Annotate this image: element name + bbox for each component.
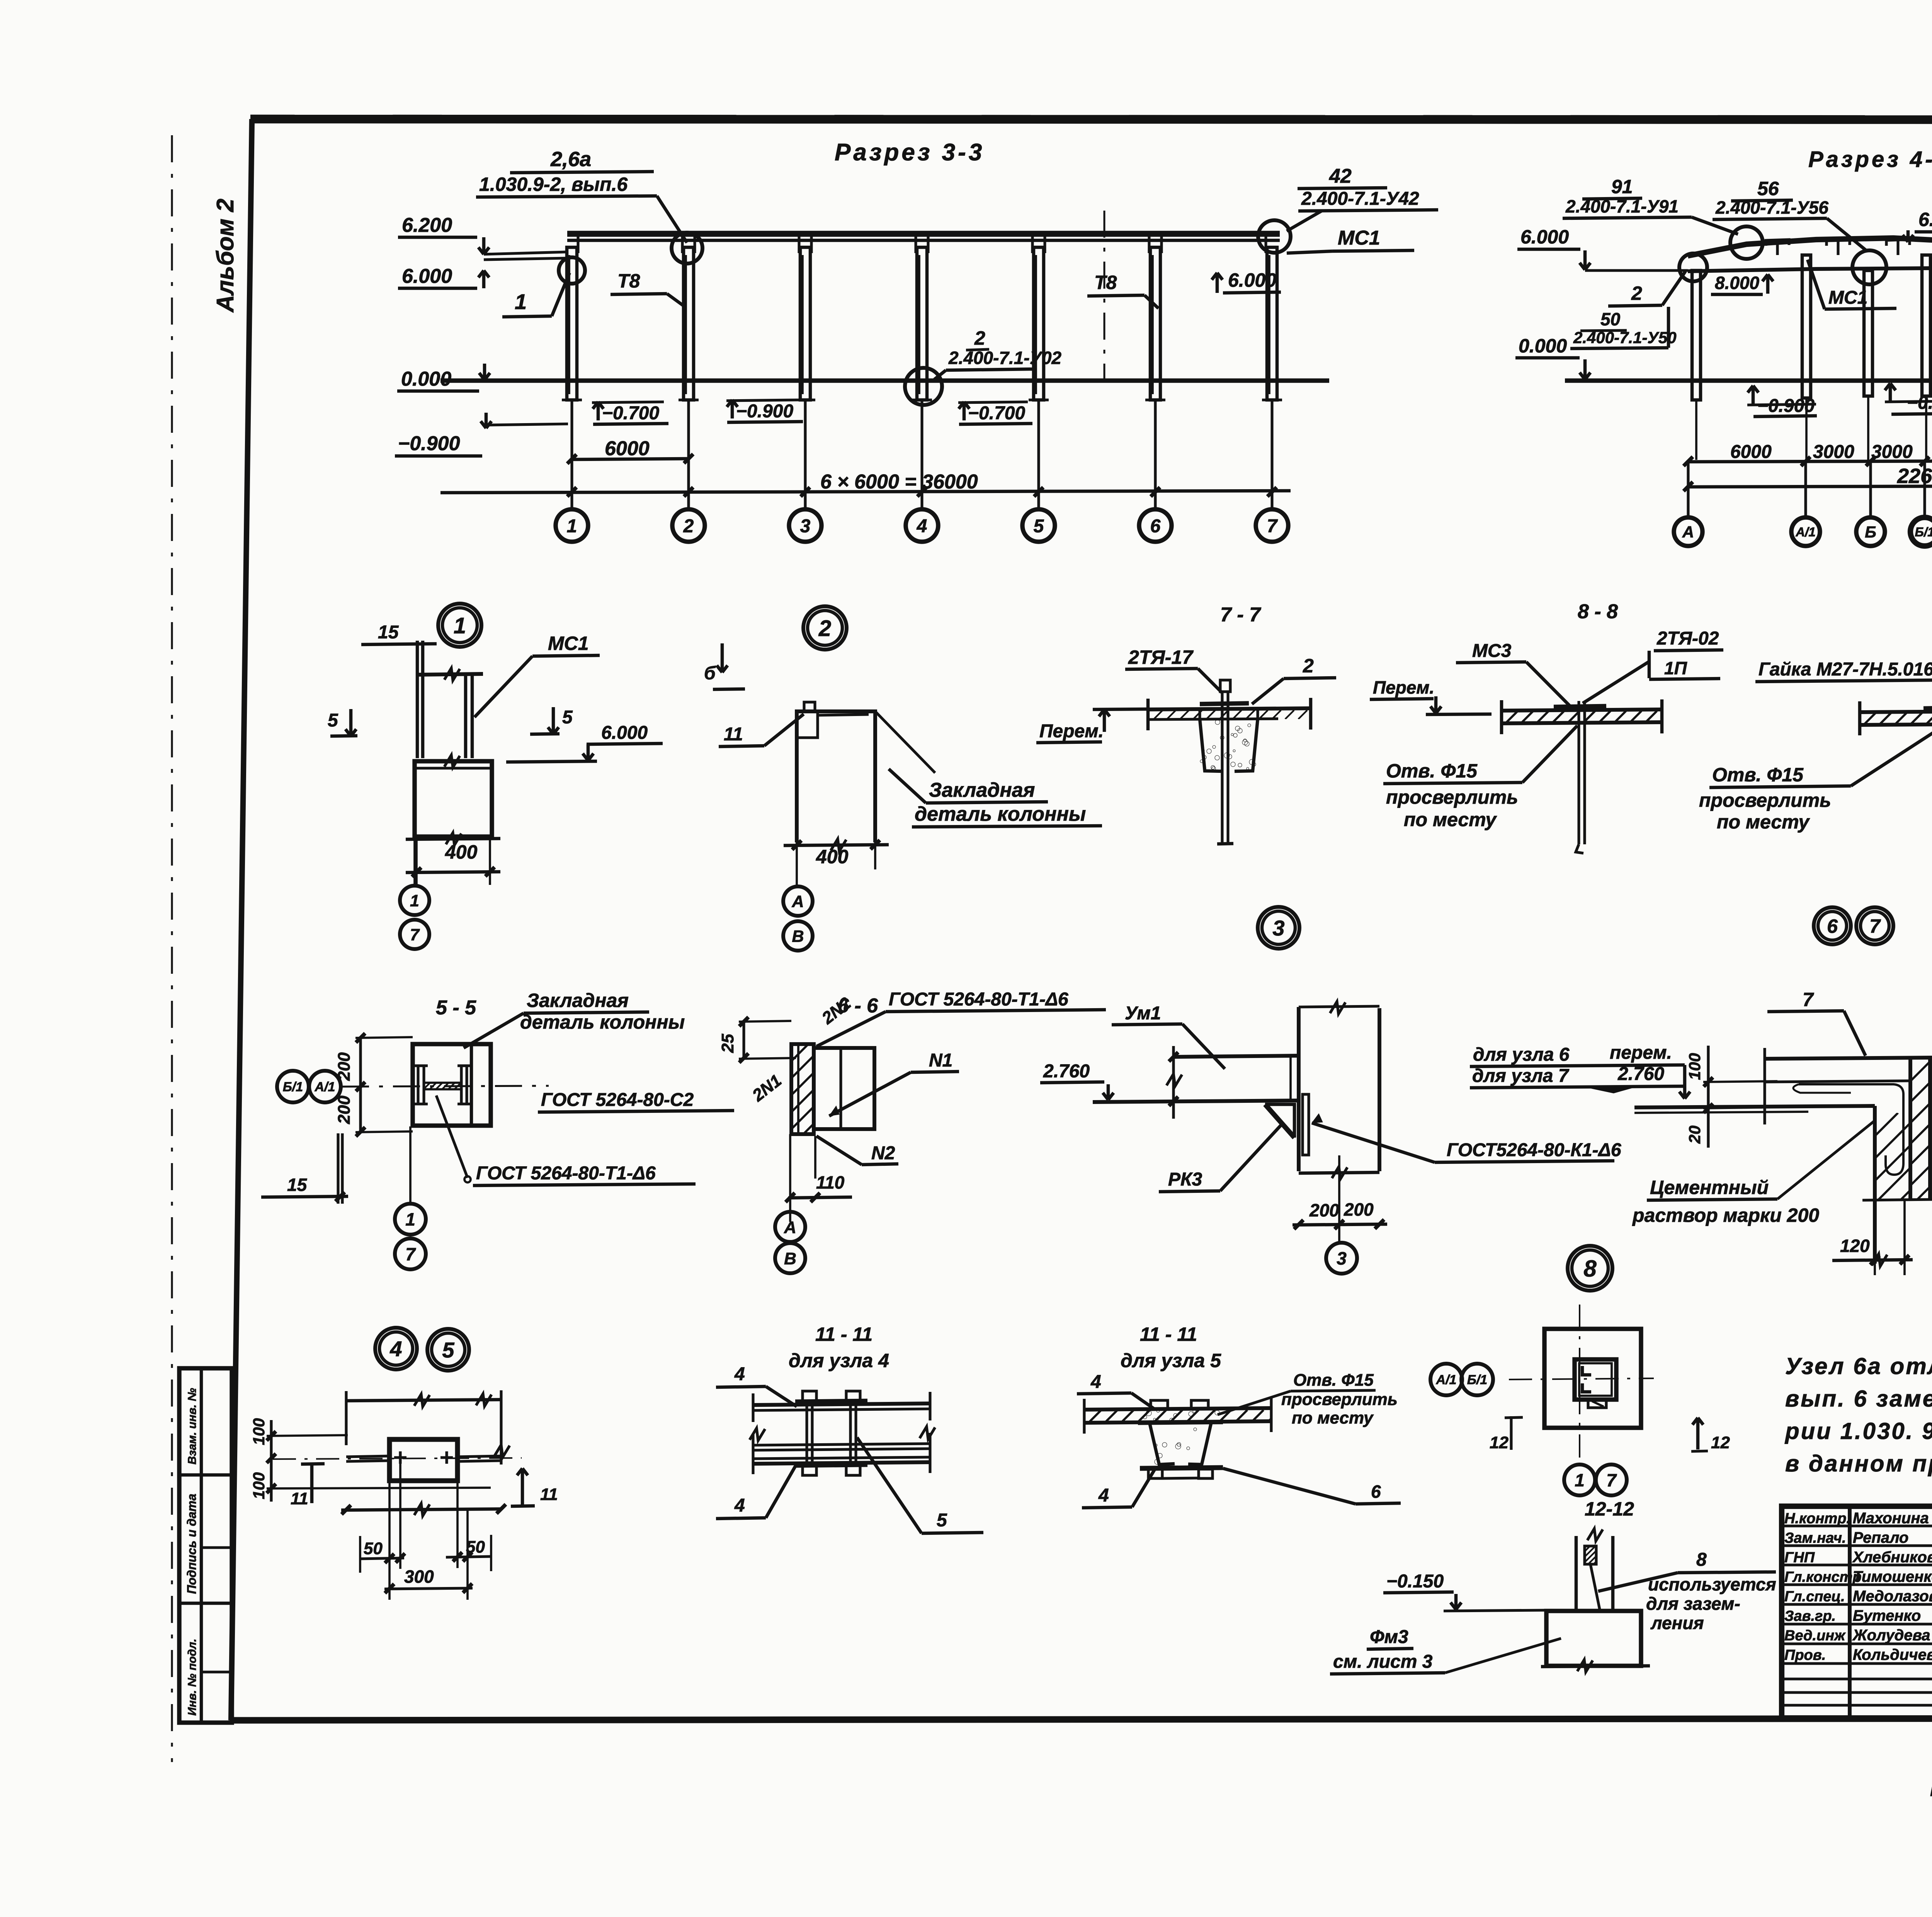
svg-text:МС3: МС3 <box>1472 641 1512 661</box>
detail node 2 marker circle <box>803 606 847 650</box>
svg-text:ГНП: ГНП <box>1784 1550 1815 1566</box>
roof beam section 3-3 <box>567 231 1280 237</box>
svg-text:0.000: 0.000 <box>401 368 451 390</box>
column on grid 7 (section 3-3) <box>1267 247 1277 400</box>
detail node 3 marker circle <box>1258 907 1299 949</box>
svg-text:6.000: 6.000 <box>1520 226 1569 248</box>
svg-text:1: 1 <box>1575 1470 1585 1490</box>
svg-text:22650: 22650 <box>1897 464 1932 488</box>
svg-text:Б/1: Б/1 <box>1915 525 1932 539</box>
grid marker circles А..Д (section 4-4) <box>1674 517 1702 546</box>
svg-text:1П: 1П <box>1664 658 1687 678</box>
node 6-7: slab with anchor loop <box>1765 1058 1932 1059</box>
svg-text:Вед.инж: Вед.инж <box>1784 1628 1846 1644</box>
svg-text:МС1: МС1 <box>548 633 589 654</box>
svg-text:6.000: 6.000 <box>601 723 648 743</box>
svg-text:6: 6 <box>1150 516 1161 536</box>
dimension row 6000/3000/3000/6000/4000 (section 4-4) <box>1688 461 1932 462</box>
svg-text:4: 4 <box>389 1337 402 1361</box>
svg-text:200: 200 <box>1309 1200 1339 1220</box>
node 4-5: top dimension line with breaks <box>346 1400 501 1401</box>
node 1: steel post МС1 elevation <box>416 641 419 758</box>
svg-text:7: 7 <box>1869 915 1881 937</box>
svg-text:2: 2 <box>818 616 831 641</box>
node 2: grid circles А and В <box>783 886 813 916</box>
svg-text:0.000: 0.000 <box>1519 335 1567 357</box>
svg-text:3000: 3000 <box>1813 442 1854 462</box>
title block table <box>1782 1506 1932 1718</box>
7-7: ribbed panel section with anchor bolt <box>1148 708 1311 709</box>
svg-text:Кольдичева: Кольдичева <box>1853 1647 1932 1664</box>
svg-text:5: 5 <box>328 710 338 731</box>
6-6: end plate with hatch <box>791 1044 814 1134</box>
svg-text:8 - 8: 8 - 8 <box>1578 600 1618 623</box>
node 8: centerlines <box>1579 1305 1580 1458</box>
column on grid 5 (section 3-3) <box>1034 247 1044 400</box>
column on grid Б1 (section 4-4) <box>1922 255 1930 396</box>
svg-text:Взам. инв. №: Взам. инв. № <box>186 1388 199 1465</box>
svg-text:2.400-7.1-У56: 2.400-7.1-У56 <box>1715 197 1828 218</box>
svg-text:11: 11 <box>724 724 743 745</box>
9-9: slab section <box>1860 711 1932 712</box>
svg-text:Б/1: Б/1 <box>283 1080 303 1094</box>
svg-text:200: 200 <box>1344 1199 1374 1220</box>
ground line 0.000 (section 4-4) <box>1565 378 1932 383</box>
svg-text:7: 7 <box>1267 516 1278 536</box>
svg-text:Тимошенко: Тимошенко <box>1853 1568 1932 1585</box>
svg-text:Махонина: Махонина <box>1853 1510 1929 1527</box>
svg-text:5: 5 <box>937 1510 947 1531</box>
column on grid 6 (section 3-3) <box>1150 247 1160 400</box>
8-8: slab section <box>1502 709 1662 711</box>
svg-text:50: 50 <box>1600 309 1621 329</box>
svg-text:ГОСТ5264-80-К1-Δ6: ГОСТ5264-80-К1-Δ6 <box>1447 1140 1621 1160</box>
node 3: column with closure plate <box>1297 1007 1301 1171</box>
svg-text:Гл.спец.: Гл.спец. <box>1784 1589 1845 1605</box>
svg-text:3: 3 <box>1337 1249 1347 1269</box>
svg-text:по месту: по месту <box>1717 811 1810 833</box>
svg-text:Хлебников: Хлебников <box>1852 1549 1932 1566</box>
svg-text:Гайка М27-7Н.5.016: Гайка М27-7Н.5.016 <box>1759 659 1932 680</box>
svg-text:6.200: 6.200 <box>402 214 452 236</box>
svg-text:2N1: 2N1 <box>748 1071 785 1106</box>
svg-text:2.400-7.1-У50: 2.400-7.1-У50 <box>1573 328 1677 347</box>
svg-text:Б/1: Б/1 <box>1467 1373 1487 1387</box>
svg-text:12-12: 12-12 <box>1585 1498 1634 1520</box>
svg-text:просверлить: просверлить <box>1281 1390 1398 1409</box>
svg-text:8: 8 <box>1583 1256 1597 1282</box>
svg-text:6: 6 <box>1827 915 1838 937</box>
svg-text:15: 15 <box>287 1175 308 1195</box>
svg-text:Репало: Репало <box>1853 1529 1908 1546</box>
column on grid А1 (section 4-4) <box>1802 255 1811 398</box>
svg-text:Фм3: Фм3 <box>1370 1627 1408 1647</box>
node 4-5: plan of joint plate <box>389 1439 457 1481</box>
column on grid Б (section 4-4) <box>1864 270 1872 396</box>
detail node 4 and 5 marker circles <box>375 1328 417 1369</box>
svg-text:Инв. № подл.: Инв. № подл. <box>186 1639 199 1716</box>
7-7: end ticks of panel <box>1146 699 1150 730</box>
svg-text:−0.150: −0.150 <box>1386 1571 1444 1592</box>
node circle at column Б top <box>1852 250 1886 284</box>
svg-text:В: В <box>792 927 804 946</box>
node circle on roof near А (91) <box>1730 226 1763 259</box>
svg-text:ГОСТ 5264-80-Т1-Δ6: ГОСТ 5264-80-Т1-Δ6 <box>889 989 1068 1010</box>
svg-text:11 - 11: 11 - 11 <box>815 1323 872 1345</box>
left trim dash-dot line <box>171 135 173 1762</box>
svg-text:Перем.: Перем. <box>1039 721 1104 742</box>
node circle at column 4 base (node 2) <box>905 368 942 405</box>
svg-text:ГОСТ 5264-80-С2: ГОСТ 5264-80-С2 <box>541 1090 694 1110</box>
svg-text:8: 8 <box>1696 1550 1707 1570</box>
11-11/5: slab with bolted assembly <box>1084 1408 1271 1410</box>
svg-text:3: 3 <box>1272 916 1284 940</box>
5-5: embedded plate with I-beam section <box>413 1044 491 1126</box>
svg-text:−0.700: −0.700 <box>1907 393 1932 413</box>
svg-text:А/1: А/1 <box>315 1080 335 1094</box>
svg-text:4: 4 <box>734 1364 745 1385</box>
svg-text:ГОСТ 5264-80-Т1-Δ6: ГОСТ 5264-80-Т1-Δ6 <box>476 1163 656 1184</box>
level mark -0.700 bay 4-5 <box>963 402 966 420</box>
node 3: console bracket РК3 <box>1265 1104 1294 1138</box>
svg-text:−0.900: −0.900 <box>398 432 460 455</box>
node 3: dims 200 200 <box>1299 1172 1379 1173</box>
svg-text:3000: 3000 <box>1871 442 1913 462</box>
svg-text:N1: N1 <box>929 1050 952 1071</box>
grid marker circles 1-7 (section 3-3) <box>556 509 588 542</box>
svg-text:25: 25 <box>718 1034 737 1053</box>
svg-text:N2: N2 <box>871 1143 895 1163</box>
svg-text:рии 1.030. 9-2 , вып. 7, ч.: рии 1.030. 9-2 , вып. 7, ч. 2 на МС 2 , … <box>1784 1418 1932 1444</box>
detail node 1 marker circle <box>438 604 481 647</box>
node 4-5: beam double lines and centerline <box>346 1456 389 1457</box>
svg-text:42: 42 <box>1329 165 1352 187</box>
svg-text:Медолазов: Медолазов <box>1853 1588 1932 1605</box>
svg-text:раствор марки 200: раствор марки 200 <box>1632 1204 1819 1226</box>
svg-text:1: 1 <box>454 613 466 638</box>
11-11/4: twin beams with bolted plates <box>753 1403 930 1405</box>
svg-text:110: 110 <box>816 1172 845 1192</box>
node 6-7: wall and column hatched <box>1908 1059 1912 1200</box>
svg-text:5: 5 <box>562 707 573 728</box>
node 1: grid circles 1 and 7 <box>400 886 429 915</box>
svg-text:Б: Б <box>1865 523 1876 541</box>
svg-text:−0.700: −0.700 <box>602 403 659 424</box>
dimension 22650 (section 4-4) <box>1688 486 1932 487</box>
svg-text:2: 2 <box>1303 655 1314 677</box>
svg-text:7: 7 <box>405 1244 416 1264</box>
column on grid А (section 4-4) <box>1692 270 1701 400</box>
svg-text:1.030.9-2, вып.6: 1.030.9-2, вып.6 <box>479 173 628 195</box>
svg-text:6000: 6000 <box>1730 442 1772 462</box>
svg-text:Гл.констр: Гл.констр <box>1784 1569 1862 1585</box>
svg-text:Цементный: Цементный <box>1650 1177 1769 1198</box>
column on grid 1 (section 3-3) <box>567 247 577 400</box>
svg-text:перем.: перем. <box>1610 1043 1672 1063</box>
svg-text:по месту: по месту <box>1404 809 1497 830</box>
svg-text:2: 2 <box>974 327 985 349</box>
svg-text:Ум1: Ум1 <box>1125 1003 1161 1024</box>
svg-text:12: 12 <box>1711 1433 1730 1452</box>
svg-text:МС1: МС1 <box>1828 287 1867 308</box>
svg-text:100: 100 <box>250 1418 268 1445</box>
svg-text:Узел 6а отличается от уз: Узел 6а отличается от узла 6 по серии 1.… <box>1785 1353 1932 1379</box>
node 8: grid circles А/1 Б/1 <box>1430 1364 1462 1395</box>
svg-text:56: 56 <box>1757 178 1779 199</box>
svg-text:100: 100 <box>250 1472 268 1499</box>
svg-text:−0.900: −0.900 <box>736 401 793 422</box>
svg-text:400: 400 <box>816 846 849 867</box>
svg-text:в данном проекте. (альбом: в данном проекте. (альбом 3). <box>1785 1451 1932 1476</box>
node 3: marker circle 3 <box>1326 1243 1357 1274</box>
svg-text:−0.700: −0.700 <box>968 403 1025 424</box>
level mark -0.900 bay 2-3 <box>731 400 734 418</box>
level mark -0.700 bay 1-2 <box>597 402 600 420</box>
svg-text:ления: ления <box>1650 1613 1704 1633</box>
6-6: grid circles А В <box>775 1212 805 1242</box>
svg-text:1: 1 <box>405 1209 415 1230</box>
svg-text:деталь колонны: деталь колонны <box>915 803 1086 825</box>
detail node 6 and 7 marker circles <box>1814 907 1851 944</box>
svg-text:6.000: 6.000 <box>402 265 452 287</box>
svg-text:6: 6 <box>1371 1482 1381 1502</box>
node circle at column 7 top (node 42) <box>1258 220 1291 253</box>
svg-text:б: б <box>704 663 716 684</box>
svg-text:4: 4 <box>917 516 927 536</box>
12-12: column above foundation <box>1575 1536 1578 1611</box>
svg-text:4: 4 <box>734 1495 745 1516</box>
svg-text:Разрез 4-4: Разрез 4-4 <box>1808 147 1932 172</box>
svg-text:Альбом 2: Альбом 2 <box>212 199 239 313</box>
6-6: channel beam <box>814 1048 874 1129</box>
svg-text:8.000: 8.000 <box>1715 273 1760 293</box>
svg-text:просверлить: просверлить <box>1386 786 1518 808</box>
12-12: foundation block <box>1546 1611 1641 1666</box>
svg-text:Т8: Т8 <box>1094 272 1117 293</box>
svg-text:20: 20 <box>1685 1126 1704 1144</box>
svg-text:6.000: 6.000 <box>1228 269 1276 291</box>
node 3: beam end dim ticks <box>1172 1046 1175 1119</box>
svg-text:1: 1 <box>410 891 419 910</box>
svg-text:Зав.гр.: Зав.гр. <box>1784 1608 1836 1624</box>
svg-text:для узла 4: для узла 4 <box>789 1350 889 1371</box>
svg-text:Перем.: Перем. <box>1373 677 1434 697</box>
9-9: plate, nut and anchor bolt <box>1923 708 1932 709</box>
8-8: plate and anchor bolt <box>1554 706 1606 707</box>
node 3: lintel beam <box>1173 1056 1299 1057</box>
svg-text:2ТЯ-17: 2ТЯ-17 <box>1128 646 1194 668</box>
node circle at column А top <box>1679 253 1707 281</box>
arched roof (section 4-4) <box>1688 238 1932 256</box>
svg-text:для узла 5: для узла 5 <box>1121 1350 1221 1371</box>
svg-text:200: 200 <box>335 1052 354 1081</box>
grid extension lines (section 3-3) <box>570 400 573 509</box>
node 4-5: lower dimension line with break <box>341 1509 501 1510</box>
svg-text:7 - 7: 7 - 7 <box>1220 604 1261 626</box>
node 6-7: anchor hook loop <box>1799 1084 1903 1175</box>
svg-text:Н.контр.: Н.контр. <box>1784 1510 1850 1527</box>
svg-text:11: 11 <box>291 1489 308 1508</box>
5-5: horizontal centerline <box>342 1086 549 1087</box>
left sidebar stamp strip <box>179 1368 232 1723</box>
svg-text:6000: 6000 <box>605 437 650 460</box>
svg-text:11: 11 <box>540 1485 558 1504</box>
svg-text:5: 5 <box>1034 516 1044 536</box>
column on grid 4 (section 3-3) <box>917 247 927 400</box>
svg-text:Бутенко: Бутенко <box>1853 1607 1921 1624</box>
svg-text:7: 7 <box>410 925 420 944</box>
5-5: I-beam flanges and web <box>418 1066 424 1104</box>
svg-text:Отв. Ф15: Отв. Ф15 <box>1293 1371 1374 1390</box>
svg-text:6.200: 6.200 <box>1918 209 1932 230</box>
svg-text:Пров.: Пров. <box>1784 1647 1826 1664</box>
svg-text:см. лист 3: см. лист 3 <box>1333 1652 1433 1672</box>
grid extension lines (section 4-4) <box>1687 462 1689 515</box>
12-12: grounding plate and rod <box>1585 1546 1596 1564</box>
svg-text:для зазем-: для зазем- <box>1646 1594 1740 1614</box>
svg-text:7: 7 <box>1803 989 1814 1010</box>
node 8: grid circles 1 7 below <box>1564 1465 1595 1495</box>
svg-text:2.400-7.1-У02: 2.400-7.1-У02 <box>948 348 1061 368</box>
svg-text:6 × 6000 = 36000: 6 × 6000 = 36000 <box>820 471 978 493</box>
svg-text:300: 300 <box>404 1567 434 1587</box>
11-11/5: welded V assembly below slab <box>1138 1422 1223 1423</box>
svg-text:1: 1 <box>515 289 527 314</box>
svg-text:2.760: 2.760 <box>1043 1061 1090 1082</box>
svg-text:Т8: Т8 <box>617 270 640 292</box>
svg-text:А/1: А/1 <box>1795 525 1815 539</box>
node circle at column 1 top <box>559 257 585 284</box>
svg-text:просверлить: просверлить <box>1699 789 1831 811</box>
svg-text:100: 100 <box>1685 1053 1704 1080</box>
svg-text:2.760: 2.760 <box>1617 1064 1664 1084</box>
svg-text:2,6а: 2,6а <box>550 148 591 171</box>
node 1: foundation block <box>415 761 492 837</box>
svg-text:В: В <box>784 1249 796 1268</box>
svg-text:для узла 7: для узла 7 <box>1472 1066 1570 1086</box>
svg-text:РК3: РК3 <box>1168 1169 1202 1190</box>
level mark -0.900 below А/1 <box>1752 386 1755 405</box>
5-5: grid circles Б/1 А/1 <box>277 1071 309 1102</box>
svg-text:2.400-7.1-У91: 2.400-7.1-У91 <box>1565 196 1679 216</box>
svg-text:2.400-7.1-У42: 2.400-7.1-У42 <box>1301 189 1419 209</box>
svg-text:7: 7 <box>1606 1470 1617 1490</box>
node 8: embedded plate in plan <box>1575 1359 1616 1400</box>
svg-text:3: 3 <box>800 516 811 536</box>
axis dash line near column 6 <box>1104 211 1105 381</box>
svg-text:4: 4 <box>1090 1372 1101 1392</box>
svg-text:используется: используется <box>1648 1574 1776 1594</box>
svg-text:Отв. Ф15: Отв. Ф15 <box>1386 760 1478 782</box>
svg-text:400: 400 <box>445 841 478 863</box>
svg-text:для узла 6: для узла 6 <box>1473 1044 1570 1065</box>
node 2: column head elevation <box>797 711 875 842</box>
svg-text:Подпись и дата: Подпись и дата <box>185 1494 199 1594</box>
svg-text:2: 2 <box>1631 282 1642 304</box>
11-11/4: top plate with bolts <box>795 1401 867 1402</box>
svg-text:12: 12 <box>1490 1433 1509 1452</box>
5-5: grid circles 1 and 7 below <box>395 1204 426 1235</box>
svg-text:50: 50 <box>364 1539 383 1558</box>
node 4-5: bolts in plate (diamonds) <box>394 1456 406 1459</box>
svg-text:Закладная: Закладная <box>527 990 629 1011</box>
svg-text:Закладная: Закладная <box>929 779 1035 801</box>
5-5: column edge lines below with dim 15 <box>337 1133 339 1204</box>
svg-text:15: 15 <box>378 622 399 643</box>
svg-text:1: 1 <box>567 516 577 536</box>
svg-text:Кирилловал Кухтинова: Кирилловал Кухтинова <box>1930 1780 1932 1800</box>
7-7: bolt with plate <box>1200 703 1249 704</box>
svg-text:2: 2 <box>683 516 694 536</box>
svg-text:11 - 11: 11 - 11 <box>1140 1323 1197 1345</box>
column on grid 2 (section 3-3) <box>684 247 694 400</box>
level mark -0.700 below Б/1 <box>1889 383 1892 403</box>
node 2: dimension 400 <box>784 845 889 845</box>
11-11/5: bolts above slab <box>1151 1400 1168 1409</box>
column on grid 3 (section 3-3) <box>800 247 810 400</box>
node 8: column plan square <box>1544 1329 1641 1428</box>
svg-text:вып. 6 заменой изделия соед: вып. 6 заменой изделия соединительного М… <box>1785 1386 1932 1412</box>
svg-text:4: 4 <box>1098 1485 1109 1506</box>
svg-text:А: А <box>791 892 804 911</box>
svg-text:120: 120 <box>1840 1236 1870 1256</box>
svg-text:деталь колонны: деталь колонны <box>520 1011 685 1033</box>
node circle at column 2 top (node 2,6a) <box>672 233 702 264</box>
svg-text:МС1: МС1 <box>1338 227 1380 249</box>
svg-text:А: А <box>1682 523 1694 541</box>
node 1: dimension 400 <box>406 839 500 839</box>
svg-text:5 - 5: 5 - 5 <box>436 997 476 1019</box>
svg-text:Жолудева: Жолудева <box>1852 1627 1930 1644</box>
svg-text:по месту: по месту <box>1292 1408 1374 1427</box>
svg-text:А: А <box>784 1218 796 1237</box>
svg-text:Зам.нач.: Зам.нач. <box>1784 1530 1846 1546</box>
drawing sheet border frame <box>231 119 252 1720</box>
svg-text:Отв. Ф15: Отв. Ф15 <box>1712 764 1804 786</box>
svg-text:5: 5 <box>442 1338 454 1362</box>
svg-text:91: 91 <box>1611 176 1633 197</box>
svg-text:А/1: А/1 <box>1436 1373 1457 1387</box>
svg-text:2ТЯ-02: 2ТЯ-02 <box>1656 628 1719 649</box>
svg-text:Разрез 3-3: Разрез 3-3 <box>835 139 985 166</box>
svg-text:200: 200 <box>335 1095 354 1124</box>
ground line 0.000 (section 3-3) <box>440 378 1329 383</box>
detail node 8 marker circle <box>1568 1246 1612 1291</box>
